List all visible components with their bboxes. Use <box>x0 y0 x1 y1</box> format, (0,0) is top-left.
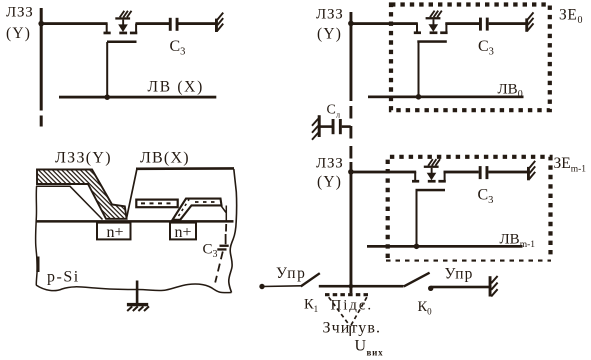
switch blade K1 <box>301 273 320 286</box>
svg-text:Упр: Упр <box>276 265 306 282</box>
svg-text:C3: C3 <box>203 242 218 261</box>
cell box ЗЕ0 dashed <box>391 5 550 111</box>
node junction gate/ЛВm-1 <box>414 244 420 250</box>
wire gate lead T3 <box>416 191 418 247</box>
svg-text:вих: вих <box>367 348 384 358</box>
cell box ЗЕm-1 bottom dashed <box>386 260 551 262</box>
svg-text:(Y): (Y) <box>317 26 342 43</box>
svg-text:C3: C3 <box>478 38 494 58</box>
svg-text:Підс.: Підс. <box>331 298 374 314</box>
svg-text:ЛВ(X): ЛВ(X) <box>140 150 190 167</box>
svg-text:ЛЗЗ(Y): ЛЗЗ(Y) <box>55 150 112 167</box>
wire ЛВm-1 row line <box>367 245 523 248</box>
terminal dot K0 <box>428 286 433 291</box>
wire node to transistor T2 <box>351 22 418 25</box>
svg-text:Зчитув.: Зчитув. <box>323 320 382 337</box>
wire left edge thick break mark <box>36 257 39 273</box>
svg-text:n+: n+ <box>107 224 124 241</box>
svg-text:U: U <box>355 338 367 355</box>
wire Cл to ЛЗЗ <box>342 125 351 128</box>
svg-text:ЛЗЗ: ЛЗЗ <box>316 156 344 172</box>
wire amplifier output stem <box>349 326 351 336</box>
gate electrode ЛВ bar <box>136 200 177 208</box>
gate electrode dotted fill <box>141 202 173 204</box>
capacitor C3 <box>169 18 179 31</box>
wire ЛЗЗ dash continuation <box>40 116 43 127</box>
ground hatches <box>127 306 149 311</box>
svg-text:ЛЗЗ: ЛЗЗ <box>6 5 34 21</box>
capacitor C3 cell0 <box>479 18 489 31</box>
capacitor C3 cross-section plates <box>220 245 229 247</box>
capacitor Cл plates <box>339 119 342 134</box>
metal strip diagonal dots <box>179 200 190 217</box>
wire K1 stub <box>262 285 301 288</box>
svg-text:ЗЕm-1: ЗЕm-1 <box>554 155 587 175</box>
metal strip bent contact <box>173 199 222 220</box>
svg-text:ЛВm-1: ЛВm-1 <box>500 232 536 251</box>
ground hatches K0 <box>491 276 497 296</box>
switch blade K0 <box>404 273 430 287</box>
substrate termination cell0 <box>525 12 533 31</box>
amplifier left side dashed <box>329 297 350 325</box>
cell box ЗЕm-1 dashed three sides <box>388 157 551 258</box>
svg-text:К0: К0 <box>418 299 433 317</box>
svg-text:(Y): (Y) <box>6 25 31 42</box>
wire strip tail <box>221 205 226 212</box>
node junction cell0 <box>348 21 354 27</box>
svg-text:n+: n+ <box>175 224 192 241</box>
ground stem <box>136 281 139 304</box>
transistor T1 <box>104 11 138 43</box>
svg-text:(Y): (Y) <box>317 174 342 191</box>
wire ЛЗЗ vertical dashed middle <box>349 106 352 162</box>
wire node to transistor T3 <box>351 171 416 174</box>
svg-text:ЛЗЗ: ЛЗЗ <box>316 7 344 23</box>
svg-text:Cл: Cл <box>327 103 341 120</box>
wire K0 to ground <box>431 286 489 289</box>
wire ЛЗЗ vertical solid upper <box>350 12 353 101</box>
wire left edge wavy <box>36 186 38 285</box>
wire capacitor to substrate <box>178 22 216 25</box>
node junction ЛЗЗ/row wire <box>38 21 44 27</box>
wire gate lead T2 <box>418 42 420 97</box>
wire Cл to ground bar <box>321 125 333 128</box>
amplifier right side dashed <box>351 297 367 325</box>
transistor T2 <box>414 11 448 43</box>
wire right edge wavy <box>229 169 237 293</box>
svg-text:ЛВ0: ЛВ0 <box>498 82 523 101</box>
wire gate lead <box>106 42 108 97</box>
wire oxide surface left <box>36 186 103 219</box>
node junction cell m-1 <box>348 169 354 175</box>
wire ЛЗЗ vertical solid lower <box>350 162 353 293</box>
svg-text:C3: C3 <box>170 38 186 58</box>
ground bar K0 <box>489 276 492 296</box>
svg-text:p-Si: p-Si <box>47 269 80 286</box>
wire C3 to substrate <box>489 22 526 25</box>
node junction gate/ЛВ line <box>104 94 110 100</box>
wire C3 dashed upper <box>225 224 228 244</box>
svg-text:C3: C3 <box>478 187 494 207</box>
svg-text:ЗЕ0: ЗЕ0 <box>559 7 582 27</box>
metal band ЛЗЗ hatched <box>37 170 127 219</box>
metal strip dotted fill <box>195 201 218 203</box>
amplifier top edge dashed <box>325 293 369 296</box>
wire contact to C3 <box>225 206 227 222</box>
wire plateau top edge <box>136 167 234 170</box>
ground bar <box>127 303 148 306</box>
wire C3 to substrate m-1 <box>488 171 527 174</box>
ground bar Cл <box>318 115 321 137</box>
wire transistor to capacitor <box>136 22 170 25</box>
substrate termination <box>215 13 223 32</box>
ground hatches Cл <box>312 119 318 140</box>
wire bus <box>319 285 404 288</box>
substrate termination m-1 <box>527 161 535 180</box>
wire C3 dashed lower <box>215 252 223 283</box>
wire ЛВ (X) row line <box>59 96 216 99</box>
region n+ source <box>97 223 131 240</box>
region n+ drain <box>170 223 196 240</box>
wire valley right wall <box>127 169 137 218</box>
svg-text:ЛВ (X): ЛВ (X) <box>148 79 204 96</box>
svg-text:Упр: Упр <box>445 266 474 283</box>
node junction gate/ЛВ0 <box>416 94 422 100</box>
wire bottom wavy edge <box>36 284 232 293</box>
wire ЛВ0 row line <box>368 96 524 99</box>
wire T2 to C3 <box>445 22 479 25</box>
wire silicon surface line <box>36 220 234 223</box>
node junction bus/ЛЗЗ <box>349 284 354 289</box>
terminal dot K1 <box>259 284 264 289</box>
wire node to transistor <box>41 22 108 25</box>
svg-text:К1: К1 <box>304 297 318 315</box>
transistor T3 <box>412 159 446 191</box>
capacitor C3 cell m-1 <box>479 166 489 179</box>
wire T3 to C3 <box>444 171 479 174</box>
wire ЛЗЗ vertical line <box>40 8 43 111</box>
